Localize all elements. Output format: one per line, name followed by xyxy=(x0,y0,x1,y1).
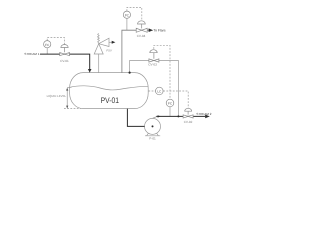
svg-text:To Flare: To Flare xyxy=(153,28,165,32)
svg-text:STREAM 2: STREAM 2 xyxy=(196,112,211,116)
svg-text:CV-02: CV-02 xyxy=(184,120,193,124)
svg-text:LIQUID LEVEL: LIQUID LEVEL xyxy=(47,94,67,98)
svg-text:CV-04: CV-04 xyxy=(137,34,146,38)
svg-text:CV-03: CV-03 xyxy=(148,63,157,67)
svg-text:STREAM 1: STREAM 1 xyxy=(24,52,39,56)
svg-text:PC: PC xyxy=(125,13,130,17)
svg-text:PV-01: PV-01 xyxy=(101,96,120,105)
svg-text:CV-01: CV-01 xyxy=(60,59,69,63)
svg-text:P-01: P-01 xyxy=(149,136,156,140)
